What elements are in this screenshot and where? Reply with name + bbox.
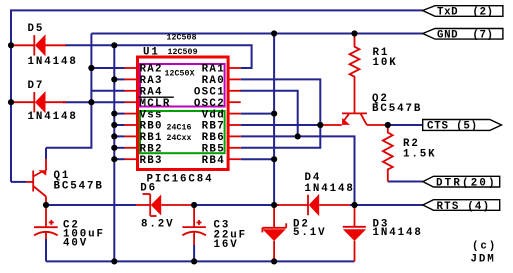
wire Q1 emitter column blue bbox=[45, 148, 47, 159]
svg-text:24Cxx: 24Cxx bbox=[167, 134, 192, 143]
svg-text:RB7: RB7 bbox=[202, 121, 225, 133]
wire RA4 branch bbox=[91, 90, 124, 92]
wire TxD top rail bbox=[11, 10, 423, 182]
wire RA3 row bbox=[114, 78, 124, 80]
transistor Q2 bbox=[320, 113, 388, 125]
stub OSC2 pin bbox=[230, 101, 241, 103]
svg-text:RB2: RB2 bbox=[140, 144, 163, 156]
svg-text:RB6: RB6 bbox=[202, 132, 225, 144]
svg-text:RA2: RA2 bbox=[140, 64, 163, 76]
svg-text:(c): (c) bbox=[472, 240, 497, 252]
capacitor C2 bbox=[34, 205, 58, 261]
capacitor C3 bbox=[182, 205, 206, 261]
diode D3 bbox=[343, 205, 366, 261]
diode D7 bbox=[11, 101, 34, 103]
port TxD (2) bbox=[423, 6, 503, 19]
svg-text:24C16: 24C16 bbox=[167, 123, 192, 132]
svg-text:RB3: RB3 bbox=[140, 155, 163, 167]
IC 24Cxx overlay box bbox=[140, 111, 225, 153]
stub RB7 pin bbox=[230, 124, 241, 126]
wire RA0 to RB5 column bbox=[241, 79, 321, 147]
stub OSC1 pin bbox=[230, 90, 241, 92]
svg-text:1N4148: 1N4148 bbox=[28, 56, 78, 68]
svg-text:RA0: RA0 bbox=[202, 75, 225, 87]
svg-text:OSC2: OSC2 bbox=[194, 98, 225, 110]
svg-text:BC547B: BC547B bbox=[54, 181, 104, 193]
IC 12C50X overlay box bbox=[140, 64, 225, 107]
port GND (7) bbox=[423, 29, 503, 42]
svg-text:10K: 10K bbox=[373, 57, 398, 69]
svg-text:JDM: JDM bbox=[471, 254, 496, 266]
wire RB0 row bbox=[114, 124, 124, 126]
svg-text:RB4: RB4 bbox=[202, 155, 225, 167]
IC U1 outer box bbox=[138, 57, 229, 170]
stub RA3 pin bbox=[124, 78, 136, 80]
stub RB0 pin bbox=[124, 124, 136, 126]
svg-text:5.1V: 5.1V bbox=[293, 227, 327, 239]
wire DTR link bbox=[388, 181, 423, 183]
wire RB4 row bbox=[241, 158, 274, 160]
wire RA2 row bbox=[91, 67, 124, 69]
wire GND row bbox=[91, 33, 422, 35]
svg-text:RA1: RA1 bbox=[202, 64, 225, 76]
wire Q1 base blue bbox=[11, 181, 26, 183]
svg-text:RTS (4): RTS (4) bbox=[437, 201, 491, 213]
svg-text:12C508: 12C508 bbox=[167, 33, 197, 42]
svg-text:RB5: RB5 bbox=[202, 144, 225, 156]
svg-text:MCLR: MCLR bbox=[140, 98, 171, 110]
diode D4 bbox=[277, 194, 350, 216]
stub RB2 pin bbox=[124, 147, 136, 149]
stub MCLR pin bbox=[124, 101, 136, 103]
wire RB3 row bbox=[114, 158, 124, 160]
stub Vss pin bbox=[124, 113, 136, 115]
wire GND column down to RA4 and RB2 elbow bbox=[46, 34, 91, 148]
wire CTS link bbox=[388, 124, 423, 126]
stub RA0 pin bbox=[230, 78, 241, 80]
wire RB6 row to RTS junction bbox=[241, 136, 355, 205]
wire RTS row blue segments bbox=[46, 204, 136, 206]
svg-text:DTR(20): DTR(20) bbox=[436, 178, 497, 190]
resistor R1 bbox=[350, 34, 360, 114]
svg-text:CTS (5): CTS (5) bbox=[427, 121, 478, 133]
port DTR(20) bbox=[423, 176, 500, 189]
stub RA1 pin bbox=[230, 67, 241, 69]
svg-text:Vdd: Vdd bbox=[202, 109, 225, 121]
svg-text:1.5K: 1.5K bbox=[403, 148, 437, 160]
wire x114 vertical bbox=[113, 45, 115, 261]
svg-text:GND (7): GND (7) bbox=[437, 30, 494, 42]
port RTS (4) bbox=[423, 200, 500, 213]
svg-text:1N4148: 1N4148 bbox=[373, 227, 423, 239]
svg-text:U1: U1 bbox=[143, 47, 160, 59]
stub RB3 pin bbox=[124, 158, 136, 160]
wire RB7 row bbox=[241, 124, 322, 126]
zener D6 bbox=[136, 194, 194, 216]
wire OSC1 to RB6 column bbox=[240, 91, 298, 137]
stub RB1 pin bbox=[124, 135, 136, 137]
svg-text:RB1: RB1 bbox=[140, 132, 163, 144]
port CTS (5) bbox=[423, 120, 502, 133]
svg-text:16V: 16V bbox=[214, 239, 239, 251]
svg-text:D5: D5 bbox=[28, 23, 45, 35]
resistor R2 bbox=[383, 125, 393, 182]
wire GND column right bbox=[273, 34, 275, 206]
stub RB5 pin bbox=[230, 147, 241, 149]
svg-text:D7: D7 bbox=[28, 80, 45, 92]
diode D5 bbox=[11, 44, 34, 46]
svg-text:12C509: 12C509 bbox=[168, 48, 198, 57]
stub RA4 pin bbox=[124, 90, 136, 92]
wire MCLR row bbox=[63, 101, 125, 103]
svg-text:BC547B: BC547B bbox=[372, 103, 422, 115]
wire bottom rail bbox=[46, 260, 355, 262]
wire Vdd row bbox=[241, 113, 274, 115]
transistor Q1 bbox=[26, 159, 46, 205]
svg-text:1N4148: 1N4148 bbox=[28, 111, 78, 123]
wire Vss row bbox=[114, 113, 124, 115]
svg-text:TxD (2): TxD (2) bbox=[437, 7, 494, 19]
svg-text:RB0: RB0 bbox=[140, 121, 163, 133]
svg-text:40V: 40V bbox=[63, 238, 88, 250]
stub RB4 pin bbox=[230, 158, 241, 160]
svg-text:OSC1: OSC1 bbox=[194, 87, 225, 99]
svg-text:1N4148: 1N4148 bbox=[305, 183, 355, 195]
svg-text:D6: D6 bbox=[140, 183, 157, 195]
wire RB2 row bbox=[114, 147, 124, 149]
wire RB1 row bbox=[114, 135, 124, 137]
wire D5 row blue bbox=[65, 45, 252, 68]
svg-text:8.2V: 8.2V bbox=[141, 219, 175, 231]
stub RB6 pin bbox=[230, 135, 241, 137]
svg-text:RA3: RA3 bbox=[140, 75, 163, 87]
svg-text:Vss: Vss bbox=[140, 109, 163, 121]
zener D2 bbox=[262, 205, 286, 261]
stub Vdd pin bbox=[230, 113, 241, 115]
svg-text:12C50X: 12C50X bbox=[165, 69, 195, 78]
stub RA2 pin bbox=[124, 67, 136, 69]
